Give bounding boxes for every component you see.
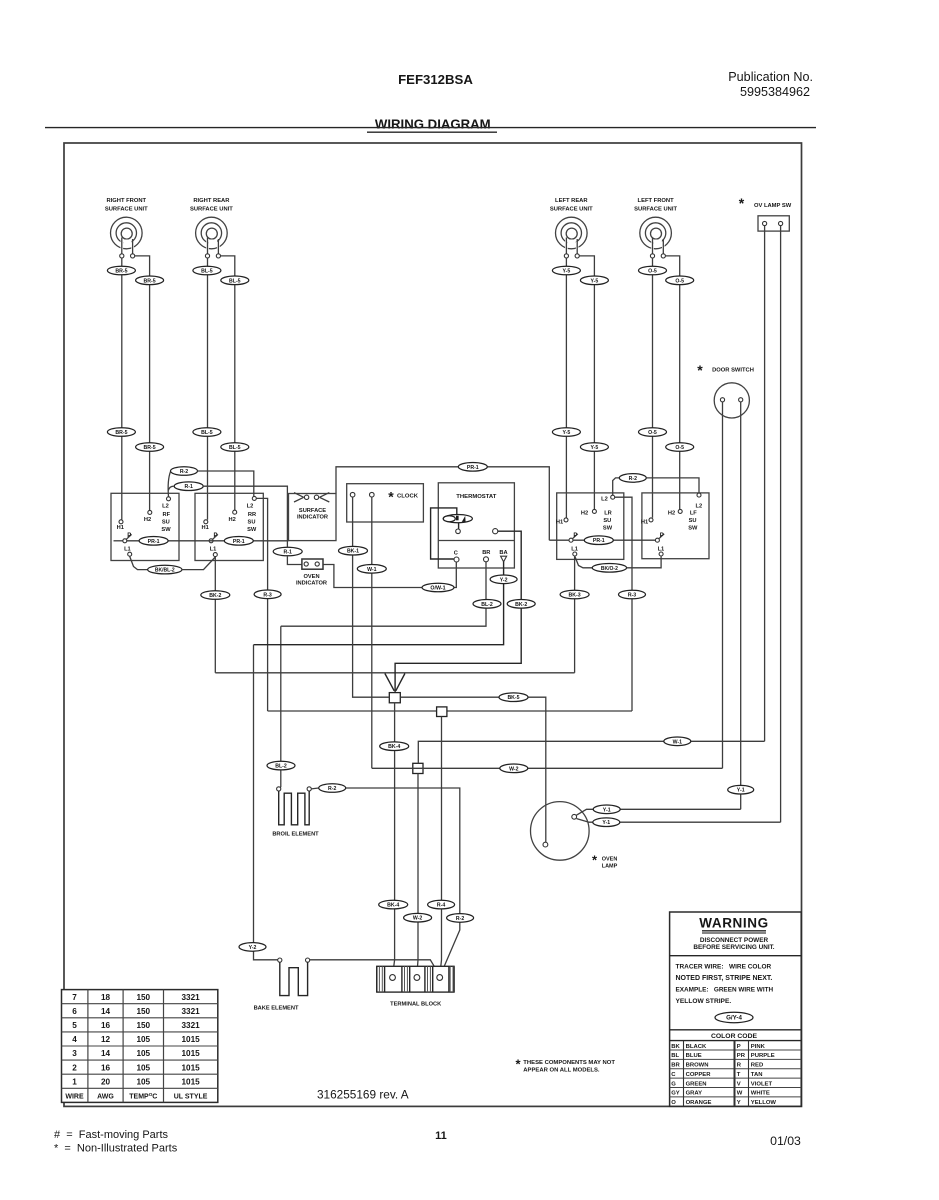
wire BK-2/BK-3 horizontal run <box>215 672 574 674</box>
wire label BL-2 <box>473 600 501 609</box>
svg-text:O-5: O-5 <box>675 445 684 451</box>
svg-text:Y-5: Y-5 <box>563 430 571 436</box>
svg-text:SW: SW <box>603 525 613 531</box>
junction square 3 <box>413 763 423 773</box>
svg-text:R: R <box>737 1063 742 1069</box>
svg-text:105: 105 <box>136 1049 150 1058</box>
svg-text:EXAMPLE: GREEN WIRE WITH: EXAMPLE: GREEN WIRE WITH <box>676 987 774 994</box>
svg-text:*: * <box>697 362 703 378</box>
wire label BK-4 <box>379 900 408 909</box>
svg-text:SU: SU <box>162 520 170 526</box>
wire thermostat right terminal BK-2 drop <box>395 531 521 692</box>
wire label R-1 <box>174 482 203 491</box>
svg-text:L2: L2 <box>601 497 608 503</box>
svg-text:WHITE: WHITE <box>751 1091 770 1097</box>
svg-text:R-4: R-4 <box>437 903 445 909</box>
wire label Y-5 <box>580 443 608 452</box>
svg-text:BL-2: BL-2 <box>481 602 493 608</box>
wire label BR-5 <box>136 443 164 452</box>
svg-text:OVEN: OVEN <box>602 857 618 863</box>
wire label R-1 <box>273 547 302 556</box>
svg-text:GREEN: GREEN <box>686 1081 707 1087</box>
wire from RIGHT FRONT right terminal <box>135 256 150 276</box>
wire label O-5 <box>639 266 667 275</box>
svg-text:SURFACE UNIT: SURFACE UNIT <box>190 206 233 212</box>
wire label Y-1 <box>728 785 754 794</box>
wire label O-5 <box>666 276 694 285</box>
svg-text:LEFT REAR: LEFT REAR <box>555 198 588 204</box>
svg-text:TEMPOC: TEMPOC <box>129 1092 157 1100</box>
svg-text:H2: H2 <box>144 517 151 523</box>
wire from LEFT FRONT right terminal <box>665 256 679 276</box>
wire label Y-5 <box>552 266 580 275</box>
thermostat terminal BA <box>501 556 507 562</box>
svg-text:SW: SW <box>688 525 698 531</box>
wire label Y-1 <box>593 805 620 814</box>
svg-text:V: V <box>737 1081 741 1087</box>
thermostat terminal BR <box>484 557 489 562</box>
surface unit LEFT REAR <box>550 198 593 258</box>
wire label BK-2 <box>201 591 230 600</box>
svg-text:LEFT FRONT: LEFT FRONT <box>638 198 675 204</box>
wire label BL-5 <box>221 443 249 452</box>
wire label O-5 <box>666 443 694 452</box>
wire label BK-1 <box>339 546 368 555</box>
svg-text:SU: SU <box>689 518 697 524</box>
svg-text:R-2: R-2 <box>180 469 188 475</box>
wire label O/W-1 <box>422 583 454 592</box>
thermostat <box>438 483 514 568</box>
title underline <box>367 131 497 133</box>
svg-text:C: C <box>454 550 458 556</box>
svg-text:LF: LF <box>690 511 697 517</box>
svg-text:BL-5: BL-5 <box>229 445 241 451</box>
svg-text:R-1: R-1 <box>284 550 292 556</box>
svg-text:G: G <box>671 1081 676 1087</box>
svg-text:AWG: AWG <box>97 1094 114 1101</box>
svg-text:OV LAMP SW: OV LAMP SW <box>754 203 792 209</box>
svg-text:14: 14 <box>101 1049 111 1058</box>
thermostat terminal C <box>454 557 459 562</box>
svg-text:01/03: 01/03 <box>770 1134 801 1148</box>
svg-text:105: 105 <box>136 1063 150 1072</box>
svg-text:L1: L1 <box>658 546 665 552</box>
wire label BL-5 <box>193 428 221 437</box>
svg-text:SURFACE UNIT: SURFACE UNIT <box>105 206 148 212</box>
svg-text:RED: RED <box>751 1063 763 1069</box>
svg-text:W-1: W-1 <box>673 739 683 745</box>
svg-text:SURFACE UNIT: SURFACE UNIT <box>634 206 677 212</box>
wire W-1 ov lamp sw run <box>418 741 764 763</box>
svg-text:H1: H1 <box>117 525 124 531</box>
wire RR H1 (BL-5) <box>207 258 209 520</box>
svg-text:150: 150 <box>136 1021 150 1030</box>
wire Y-1 door switch to lamp <box>576 809 740 815</box>
header rule <box>45 127 816 129</box>
svg-text:O-5: O-5 <box>648 269 657 275</box>
svg-text:P: P <box>737 1044 741 1050</box>
wire label W-2 <box>404 913 432 922</box>
svg-text:R-2: R-2 <box>456 916 464 922</box>
svg-text:BR-5: BR-5 <box>144 445 156 451</box>
surface unit LEFT FRONT <box>634 198 677 258</box>
wire label R-2 <box>619 474 646 483</box>
svg-text:BROIL ELEMENT: BROIL ELEMENT <box>272 832 319 838</box>
thermostat capillary and bulb O-2 <box>431 508 473 559</box>
svg-text:150: 150 <box>136 993 150 1002</box>
svg-text:SURFACE: SURFACE <box>299 508 326 514</box>
svg-text:BK-4: BK-4 <box>387 903 399 909</box>
wire label BL-5 <box>221 276 249 285</box>
wire W-2 square3 down to terminal block <box>417 774 418 975</box>
svg-text:*: * <box>388 489 394 505</box>
wire label BK-4 <box>380 742 409 751</box>
thermostat internal right terminal <box>493 529 498 534</box>
wire label BR-5 <box>136 276 164 285</box>
svg-text:H2: H2 <box>668 511 675 517</box>
svg-text:Y-5: Y-5 <box>591 445 599 451</box>
wire label W-2 <box>500 764 528 773</box>
wire PR-1 riser and top run <box>336 467 549 540</box>
svg-text:THESE COMPONENTS MAY NOT: THESE COMPONENTS MAY NOT <box>523 1060 615 1066</box>
svg-text:3321: 3321 <box>181 1007 200 1016</box>
svg-text:SW: SW <box>161 527 171 533</box>
junction arrow <box>385 674 394 691</box>
svg-text:H1: H1 <box>641 520 648 526</box>
wire label R-3 <box>254 590 281 599</box>
wire clock BK-1 <box>353 497 390 697</box>
svg-text:105: 105 <box>136 1077 150 1086</box>
svg-text:1015: 1015 <box>181 1049 200 1058</box>
clock <box>347 484 424 522</box>
junction square 1 <box>389 693 400 703</box>
door switch <box>697 362 754 418</box>
wire label R-2 <box>171 467 198 476</box>
svg-text:H2: H2 <box>229 517 236 523</box>
svg-text:SW: SW <box>247 527 257 533</box>
svg-text:BLUE: BLUE <box>686 1053 702 1059</box>
svg-text:TERMINAL BLOCK: TERMINAL BLOCK <box>390 1002 442 1008</box>
svg-text:R-2: R-2 <box>629 476 637 482</box>
svg-text:CLOCK: CLOCK <box>397 494 419 500</box>
svg-text:RIGHT REAR: RIGHT REAR <box>193 198 230 204</box>
svg-text:5995384962: 5995384962 <box>740 85 810 99</box>
wire thermostat BA Y-2 drop <box>254 562 504 645</box>
svg-text:TRACER WIRE: WIRE COLOR: TRACER WIRE: WIRE COLOR <box>676 964 772 971</box>
svg-text:BR: BR <box>671 1063 680 1069</box>
svg-text:L2: L2 <box>695 503 702 509</box>
surface unit RIGHT REAR <box>190 198 233 258</box>
surface unit RIGHT FRONT <box>105 198 148 258</box>
wire label BL-2 <box>267 761 295 770</box>
wire label PR-1 <box>224 537 253 546</box>
wire label BK-5 <box>499 693 528 702</box>
svg-text:INDICATOR: INDICATOR <box>296 581 327 587</box>
wire label BK/O-2 <box>592 564 626 573</box>
svg-text:RF: RF <box>163 512 171 518</box>
svg-text:GY: GY <box>671 1091 680 1097</box>
svg-text:LAMP: LAMP <box>602 863 618 869</box>
wire label PR-1 <box>139 537 168 546</box>
svg-text:BK/O-2: BK/O-2 <box>601 566 618 572</box>
svg-text:1015: 1015 <box>181 1077 200 1086</box>
svg-text:BL-2: BL-2 <box>275 764 287 770</box>
svg-text:BA: BA <box>499 550 507 556</box>
svg-text:Y-1: Y-1 <box>603 807 611 813</box>
wire LR.L1 BK-3 drop <box>574 556 576 673</box>
svg-text:7: 7 <box>72 993 77 1002</box>
svg-text:L1: L1 <box>571 546 578 552</box>
svg-text:BK: BK <box>671 1044 680 1050</box>
junction square 2 <box>437 707 447 717</box>
wire label Y-5 <box>552 428 580 437</box>
svg-text:COPPER: COPPER <box>686 1072 712 1078</box>
wire label R-4 <box>428 900 455 909</box>
wire ov lamp sw left (W-1) <box>764 226 766 742</box>
svg-text:BK-2: BK-2 <box>209 593 221 599</box>
wire BK-5 square1 to oven lamp <box>400 697 546 842</box>
svg-text:BR: BR <box>482 550 490 556</box>
svg-text:RIGHT FRONT: RIGHT FRONT <box>106 198 146 204</box>
wire door switch right (Y-1) <box>740 402 742 809</box>
svg-text:L1: L1 <box>124 547 131 553</box>
svg-text:SU: SU <box>603 518 611 524</box>
wire LR.L2 R-3 drop <box>615 497 632 711</box>
svg-text:SU: SU <box>248 520 256 526</box>
wire ov lamp sw right (Y-1) <box>780 226 782 823</box>
svg-text:RR: RR <box>248 512 256 518</box>
svg-text:BL-5: BL-5 <box>201 269 213 275</box>
warning box <box>670 912 802 1106</box>
wire R-3 horizontal run <box>268 710 632 712</box>
svg-text:H1: H1 <box>556 520 563 526</box>
switch LF SU SW <box>641 493 709 559</box>
wire PR-1 left run <box>114 540 123 542</box>
svg-text:O-5: O-5 <box>675 278 684 284</box>
svg-text:Y-2: Y-2 <box>500 577 508 583</box>
svg-text:BK-2: BK-2 <box>515 602 527 608</box>
svg-text:GRAY: GRAY <box>686 1091 703 1097</box>
svg-text:VIOLET: VIOLET <box>751 1081 773 1087</box>
wire BL-2 drop to broil <box>279 626 281 788</box>
svg-text:BL-5: BL-5 <box>229 278 241 284</box>
svg-text:THERMOSTAT: THERMOSTAT <box>456 494 496 500</box>
svg-text:1015: 1015 <box>181 1035 200 1044</box>
wire label BR-5 <box>107 428 135 437</box>
surface indicator <box>289 493 337 541</box>
terminal block <box>377 966 454 1007</box>
svg-text:Y-5: Y-5 <box>591 278 599 284</box>
wire label R-2 <box>447 914 474 923</box>
svg-text:12: 12 <box>101 1035 111 1044</box>
wire RR.L2 R-3 drop <box>257 498 268 711</box>
svg-text:P: P <box>213 533 217 539</box>
svg-text:Y-1: Y-1 <box>737 788 745 794</box>
wire RF H2 (BR-5) <box>149 276 151 510</box>
wire PR-1 right run <box>549 539 569 541</box>
wire LR H2 (Y-5) <box>593 276 595 509</box>
svg-text:BLACK: BLACK <box>686 1044 707 1050</box>
svg-text:UL STYLE: UL STYLE <box>174 1094 208 1101</box>
wire LF H2 (O-5) <box>679 276 681 509</box>
wire label R-2 <box>319 784 346 793</box>
svg-text:# = Fast-moving Parts: # = Fast-moving Parts <box>54 1129 169 1141</box>
wire LR.L1 to LF.L1 (BK/O-2) <box>575 556 592 568</box>
svg-text:R-3: R-3 <box>263 592 271 598</box>
svg-text:L1: L1 <box>210 547 217 553</box>
switch RF SU SW <box>111 493 179 560</box>
wire label O-5 <box>639 428 667 437</box>
svg-text:H2: H2 <box>581 511 588 517</box>
svg-text:2: 2 <box>72 1063 77 1072</box>
svg-text:Y: Y <box>737 1100 741 1106</box>
svg-text:PR-1: PR-1 <box>233 539 245 545</box>
svg-text:C: C <box>671 1072 676 1078</box>
svg-text:OVEN: OVEN <box>303 574 319 580</box>
svg-text:Y-1: Y-1 <box>602 820 610 826</box>
svg-text:DOOR SWITCH: DOOR SWITCH <box>712 368 754 374</box>
wire label R-3 <box>619 590 646 599</box>
wire label Y-1 <box>593 818 620 827</box>
svg-text:DISCONNECT POWER: DISCONNECT POWER <box>700 937 769 944</box>
svg-text:W-2: W-2 <box>413 916 423 922</box>
wire R-1 to oven indicator <box>287 556 302 564</box>
wire RR H2 (BL-5) <box>234 276 236 510</box>
wire Y-1 ov lamp sw to lamp <box>577 819 781 823</box>
wire door switch left (W-2) <box>722 402 724 768</box>
svg-text:P: P <box>660 533 664 539</box>
svg-text:O-5: O-5 <box>648 430 657 436</box>
svg-text:5: 5 <box>72 1021 77 1030</box>
svg-text:FEF312BSA: FEF312BSA <box>398 72 473 87</box>
svg-text:O/W-1: O/W-1 <box>430 586 445 592</box>
svg-text:R-3: R-3 <box>628 593 636 599</box>
wire R-1 to surface indicator branch <box>204 486 288 547</box>
svg-text:P: P <box>127 533 131 539</box>
wire LR.L2 to R-2 <box>613 478 620 495</box>
oven lamp <box>531 802 618 870</box>
svg-text:LR: LR <box>604 511 612 517</box>
wire R-4 square2 down to terminal block <box>440 717 442 975</box>
svg-text:*: * <box>739 195 745 211</box>
wire R-2 to RR.L2 <box>198 471 254 496</box>
wire RR.L1 BK-2 drop <box>214 557 216 673</box>
wire broil R-2 to terminal block <box>311 787 318 790</box>
svg-text:W-1: W-1 <box>367 567 377 573</box>
wire R-2 diagonal into right terminal <box>441 921 460 976</box>
wire label G/Y-4 <box>715 1012 753 1022</box>
svg-text:WARNING: WARNING <box>699 916 768 931</box>
svg-text:BAKE ELEMENT: BAKE ELEMENT <box>254 1006 299 1012</box>
svg-text:PR-1: PR-1 <box>593 538 605 544</box>
svg-text:H1: H1 <box>202 525 209 531</box>
wire label Y-5 <box>580 276 608 285</box>
wire label Y-2 <box>239 943 266 952</box>
wire label PR-1 <box>458 463 487 472</box>
svg-text:NOTED FIRST, STRIPE NEXT.: NOTED FIRST, STRIPE NEXT. <box>676 975 773 982</box>
wire LR H1 (Y-5) <box>565 258 567 518</box>
wire RF.L2 to R-2 <box>168 471 170 496</box>
svg-text:BR-5: BR-5 <box>115 269 127 275</box>
svg-text:4: 4 <box>72 1035 77 1044</box>
wire Y-2 drop to bake <box>254 645 278 960</box>
wire RF.L1 to RR.L1 (BK/BL-2) <box>130 556 148 569</box>
svg-text:P: P <box>573 533 577 539</box>
svg-text:BROWN: BROWN <box>686 1063 709 1069</box>
wire label W-1 <box>664 737 691 746</box>
svg-text:PR-1: PR-1 <box>467 465 479 471</box>
wire label Y-2 <box>490 575 517 584</box>
wire LF H1 (O-5) <box>652 258 654 518</box>
svg-text:3321: 3321 <box>181 1021 200 1030</box>
wire W-2 horizontal run <box>372 767 723 769</box>
wire RF H1 (BR-5) <box>121 258 123 520</box>
wire label BR-5 <box>107 266 135 275</box>
wire thermostat BR BL-2 drop <box>281 562 486 626</box>
svg-text:Y-5: Y-5 <box>563 269 571 275</box>
wire label BK/BL-2 <box>148 565 182 574</box>
svg-text:SURFACE UNIT: SURFACE UNIT <box>550 206 593 212</box>
svg-text:ORANGE: ORANGE <box>686 1100 712 1106</box>
svg-text:316255169 rev. A: 316255169 rev. A <box>317 1088 409 1102</box>
svg-text:W-2: W-2 <box>509 766 519 772</box>
svg-text:PINK: PINK <box>751 1044 766 1050</box>
svg-text:BK-4: BK-4 <box>388 744 400 750</box>
svg-text:BK/BL-2: BK/BL-2 <box>155 568 175 574</box>
wire label BL-5 <box>193 266 221 275</box>
note these components <box>515 1057 615 1074</box>
svg-text:G/Y-4: G/Y-4 <box>726 1015 742 1022</box>
svg-text:105: 105 <box>136 1035 150 1044</box>
svg-text:O: O <box>671 1100 676 1106</box>
svg-text:TAN: TAN <box>751 1072 763 1078</box>
svg-text:R-1: R-1 <box>185 484 193 490</box>
wire R-2 to LF.L2 <box>646 478 699 493</box>
svg-text:INDICATOR: INDICATOR <box>297 514 328 520</box>
svg-text:6: 6 <box>72 1007 77 1016</box>
svg-text:T: T <box>737 1072 741 1078</box>
wire from LEFT REAR right terminal <box>579 256 594 276</box>
svg-text:3: 3 <box>72 1049 77 1058</box>
svg-text:18: 18 <box>101 993 111 1002</box>
wire gauge table <box>62 990 218 1103</box>
svg-text:PURPLE: PURPLE <box>751 1053 775 1059</box>
svg-text:COLOR CODE: COLOR CODE <box>711 1033 758 1040</box>
svg-text:R-2: R-2 <box>328 786 336 792</box>
svg-text:YELLOW STRIPE.: YELLOW STRIPE. <box>676 998 732 1005</box>
svg-text:11: 11 <box>435 1130 447 1142</box>
svg-text:WIRE: WIRE <box>65 1094 84 1101</box>
svg-text:WIRING DIAGRAM: WIRING DIAGRAM <box>375 117 491 132</box>
svg-text:16: 16 <box>101 1021 111 1030</box>
wire label PR-1 <box>584 536 613 545</box>
svg-text:BK-5: BK-5 <box>507 695 519 701</box>
ov lamp switch <box>739 195 792 231</box>
svg-text:BEFORE SERVICING UNIT.: BEFORE SERVICING UNIT. <box>693 944 774 951</box>
bake element <box>254 958 310 1012</box>
svg-text:PR: PR <box>737 1053 746 1059</box>
svg-text:Publication No.: Publication No. <box>728 70 813 84</box>
svg-text:20: 20 <box>101 1077 111 1086</box>
switch RR SU SW <box>195 493 263 560</box>
wire label BK-3 <box>560 590 589 599</box>
svg-text:1015: 1015 <box>181 1063 200 1072</box>
svg-text:PR-1: PR-1 <box>148 539 160 545</box>
diagram border <box>64 143 802 1106</box>
svg-text:BK-3: BK-3 <box>569 593 581 599</box>
oven indicator <box>296 559 327 587</box>
svg-text:150: 150 <box>136 1007 150 1016</box>
